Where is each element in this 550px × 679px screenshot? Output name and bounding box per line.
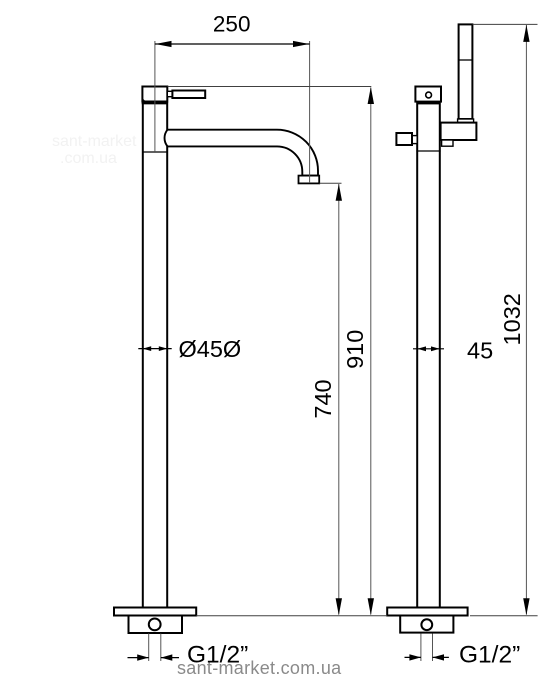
side base box (400, 616, 453, 633)
dim Ø45 line (138, 348, 171, 350)
svg-text:910: 910 (342, 330, 368, 369)
spout tube (165, 130, 318, 176)
svg-text:45: 45 (467, 338, 493, 364)
dim G1/2 side line left (405, 656, 421, 658)
front inlet circle (149, 619, 161, 631)
dim 250 line (155, 43, 310, 45)
dim Ø45 arrow right (159, 346, 168, 351)
dim 1032 arrow bottom (523, 598, 529, 615)
shower wand (459, 24, 473, 119)
dim G1/2 front line right (161, 657, 179, 659)
dim 740 arrow top (336, 184, 342, 201)
bracket tab (442, 140, 453, 146)
dim 45 arrow left (417, 346, 426, 351)
dim 910 line (370, 88, 372, 615)
dim G1/2 side line right (433, 656, 449, 658)
dim 250 extension right (309, 41, 311, 183)
floor line (196, 615, 387, 617)
side head circle (426, 92, 432, 98)
side head (415, 87, 441, 102)
dim G1/2 side arrow left (409, 654, 421, 660)
dim 910 arrow bottom (368, 598, 374, 615)
dim Ø45 arrow left (143, 346, 152, 351)
side inlet circle (421, 619, 432, 630)
reference line wand top (473, 23, 538, 25)
handle bar (172, 91, 205, 99)
dim 740 arrow bottom (336, 598, 342, 615)
dim 45 arrow right (431, 346, 440, 351)
wand collar (458, 119, 474, 123)
side head collar (417, 102, 441, 104)
dim 250 arrow left (155, 41, 171, 47)
svg-text:740: 740 (310, 379, 336, 418)
dim G1/2 side ext lines (420, 634, 422, 662)
dim 740 top line (320, 182, 342, 184)
side knob connector (412, 136, 417, 144)
wand bracket (441, 123, 477, 140)
dim G1/2 front ext lines (148, 634, 150, 662)
dim G1/2 front arrow left (137, 654, 149, 660)
front head chamfer (142, 99, 145, 102)
side view column (417, 103, 440, 607)
svg-text:1032: 1032 (499, 293, 525, 345)
front base box (129, 616, 183, 634)
wand division (459, 59, 473, 61)
dim G1/2 front arrow right (161, 654, 173, 660)
front view column (143, 103, 167, 607)
svg-text:.com.ua: .com.ua (60, 150, 117, 167)
front head collar (142, 102, 168, 104)
reference line spout top (168, 86, 372, 88)
side joint line (416, 150, 440, 152)
front view joint line (142, 151, 168, 153)
dim 45 line (413, 348, 444, 350)
dim 250 arrow right (293, 41, 309, 47)
dim 1032 line (525, 25, 527, 615)
side knob (396, 133, 412, 145)
watermark faint middle (52, 133, 137, 167)
svg-text:G1/2”: G1/2” (459, 642, 520, 669)
spout outlet collar (299, 176, 320, 184)
svg-text:250: 250 (213, 12, 251, 37)
dim 1032 arrow top (523, 25, 529, 42)
dim 740 line (338, 184, 340, 615)
dim 910 arrow top (368, 87, 374, 104)
side flange (387, 608, 467, 616)
svg-text:G1/2”: G1/2” (187, 642, 248, 669)
front view head (142, 87, 167, 102)
front flange (114, 608, 196, 616)
svg-text:Ø45Ø: Ø45Ø (179, 336, 242, 362)
svg-text:sant-market: sant-market (52, 133, 137, 150)
handle stub (167, 91, 172, 96)
dim 250 extension left (154, 41, 156, 152)
dim G1/2 front line left (128, 657, 149, 659)
dim G1/2 side arrow right (433, 654, 445, 660)
